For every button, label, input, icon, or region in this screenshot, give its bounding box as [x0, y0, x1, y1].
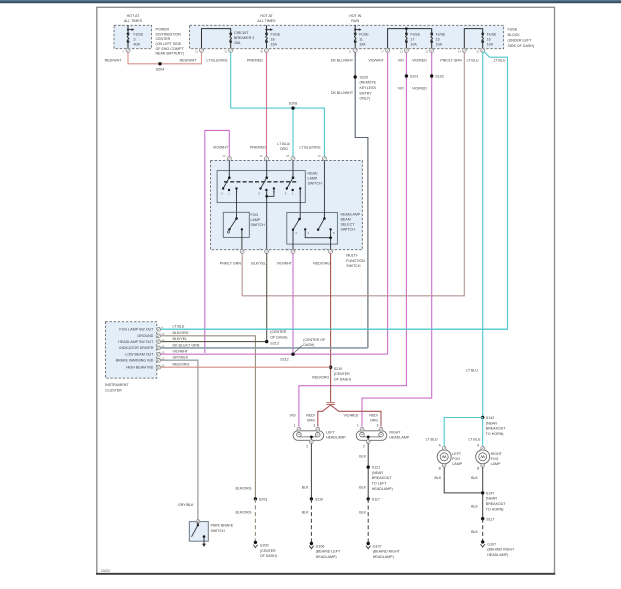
svg-text:RUN: RUN [351, 19, 359, 23]
svg-text:PNK/RED: PNK/RED [250, 145, 266, 149]
svg-text:BLK/ORG: BLK/ORG [236, 510, 252, 514]
svg-text:ENTRY: ENTRY [360, 91, 373, 95]
svg-text:ALL TIMES: ALL TIMES [124, 19, 143, 23]
svg-text:INSTRUMENT: INSTRUMENT [105, 383, 129, 387]
svg-text:VIO: VIO [398, 86, 404, 90]
svg-text:3: 3 [313, 423, 315, 427]
svg-text:(NEAR: (NEAR [486, 497, 498, 501]
svg-text:FUSE: FUSE [410, 32, 420, 36]
svg-text:HIGH BEAM IND: HIGH BEAM IND [126, 366, 154, 370]
svg-text:FUSE: FUSE [134, 32, 144, 36]
svg-text:S212: S212 [280, 358, 288, 362]
svg-text:OF DASH): OF DASH) [260, 554, 277, 558]
wire BLK left headlamp ground to G106 [302, 444, 341, 560]
svg-text:(NEAR: (NEAR [372, 471, 384, 475]
svg-text:VIO/WHT: VIO/WHT [173, 350, 189, 354]
svg-text:PNK/LT GRN: PNK/LT GRN [440, 58, 462, 62]
svg-text:PARK BRAKE: PARK BRAKE [211, 524, 234, 528]
fuse block box [190, 14, 534, 49]
svg-text:TO HORN): TO HORN) [486, 507, 504, 511]
svg-text:CIRCUIT: CIRCUIT [234, 31, 249, 35]
svg-text:VIO/WHT: VIO/WHT [368, 58, 384, 62]
svg-text:S210: S210 [334, 367, 342, 371]
svg-text:HEADLAMP): HEADLAMP) [372, 487, 393, 491]
svg-text:17: 17 [324, 247, 328, 251]
svg-text:POWER: POWER [156, 27, 170, 31]
svg-text:LEFT: LEFT [326, 430, 336, 434]
svg-text:SELECT: SELECT [341, 222, 356, 226]
wire DK BLU/LT GRN indicator row [161, 347, 368, 349]
gang3 output to beam select [299, 189, 301, 220]
wire RED/WHT from fuse3 to breaker, splice S204 [105, 52, 202, 71]
headlamp beam select switch [287, 160, 361, 253]
svg-text:FOG: FOG [251, 213, 259, 217]
svg-text:BREAKER 3: BREAKER 3 [234, 36, 254, 40]
wire LT BLU fog lamp sw out row [161, 328, 508, 330]
right fog lamp [476, 444, 503, 471]
svg-text:1: 1 [294, 423, 296, 427]
svg-text:B: B [439, 467, 441, 471]
svg-text:RIGHT: RIGHT [389, 430, 401, 434]
svg-text:BREAKOUT: BREAKOUT [486, 502, 507, 506]
fuse block output pins [195, 48, 485, 53]
fuse 16 jumper [464, 29, 482, 49]
svg-text:(REMOTE: (REMOTE [360, 81, 377, 85]
svg-text:(NEAR: (NEAR [486, 421, 498, 425]
svg-text:20: 20 [260, 154, 264, 158]
svg-text:2: 2 [363, 445, 365, 449]
svg-text:BLK: BLK [359, 486, 366, 490]
svg-text:VIO/WHT: VIO/WHT [277, 261, 293, 265]
svg-text:FUNCTION: FUNCTION [346, 259, 365, 263]
fuse 11 [354, 25, 370, 48]
fuse 18 [265, 25, 281, 48]
svg-text:(CENTER: (CENTER [270, 330, 286, 334]
svg-text:3: 3 [134, 37, 136, 41]
wire BLK/ORG ground row to G200 [161, 336, 277, 558]
svg-text:SWITCH: SWITCH [341, 227, 356, 231]
svg-text:TO LEFT: TO LEFT [372, 482, 388, 486]
svg-text:LT BLU: LT BLU [173, 325, 185, 329]
pin 2 of PDC [123, 48, 131, 53]
wire GRY/BLK brake warning row to park brake switch [161, 360, 198, 519]
svg-text:10: 10 [224, 50, 228, 54]
svg-text:S117: S117 [372, 498, 380, 502]
svg-text:VIO: VIO [398, 58, 404, 62]
wire BLK right headlamp ground, splices S121 S117, G107 [359, 444, 400, 560]
wire DK BLU/WHT fuse11 to indicator row, splice S220 [331, 52, 377, 348]
svg-text:BRAKE WARNING IND: BRAKE WARNING IND [116, 359, 154, 363]
svg-text:HEAD: HEAD [308, 172, 318, 176]
svg-text:ORG: ORG [370, 418, 378, 422]
svg-text:FUSE: FUSE [271, 32, 281, 36]
svg-text:NEAR BATTERY): NEAR BATTERY) [156, 52, 184, 56]
svg-text:BLK/YEL: BLK/YEL [173, 337, 188, 341]
svg-text:CLUSTER: CLUSTER [105, 388, 122, 392]
switch top pins 13 20 18 19 [222, 154, 326, 161]
svg-text:FUSE: FUSE [436, 32, 446, 36]
svg-text:HEADLAMP): HEADLAMP) [316, 555, 337, 559]
fuse 17 [405, 32, 421, 48]
fuse 15 [430, 32, 446, 48]
fog lamp switch [223, 212, 265, 253]
gang2 output bracket to pin 9 [265, 189, 273, 254]
wire BLK/YEL switch pin9 to splice S213 [251, 253, 266, 341]
svg-text:S147: S147 [486, 491, 494, 495]
svg-text:2: 2 [306, 445, 308, 449]
svg-text:OF DASH): OF DASH) [270, 335, 287, 339]
svg-text:BLK: BLK [471, 505, 478, 509]
fuse 17 and fuse 15 jumper [388, 27, 432, 48]
svg-text:11: 11 [349, 50, 352, 54]
svg-text:BLK/YEL: BLK/YEL [251, 261, 266, 265]
svg-text:17: 17 [410, 37, 414, 41]
headlamp switch gang 2 [258, 160, 275, 195]
svg-text:(BEHIND LEFT: (BEHIND LEFT [316, 550, 341, 554]
svg-text:TO HORN): TO HORN) [486, 432, 504, 436]
svg-text:14: 14 [235, 247, 239, 251]
head lamp switch [217, 171, 322, 203]
svg-text:FUSE: FUSE [359, 32, 369, 36]
svg-text:LT BLU: LT BLU [494, 58, 506, 62]
left fog lamp [437, 444, 462, 471]
svg-text:VIO/RED: VIO/RED [412, 86, 427, 90]
svg-text:KEYLESS: KEYLESS [360, 86, 377, 90]
svg-text:BREAKOUT: BREAKOUT [486, 427, 507, 431]
svg-text:(CENTER: (CENTER [334, 372, 350, 376]
wire LT BLU/ORG breaker to switch, splice S208 [206, 52, 324, 156]
left headlamp [293, 423, 346, 448]
svg-text:20: 20 [476, 50, 480, 54]
svg-text:HOT IN: HOT IN [349, 14, 362, 18]
svg-text:RED/WHT: RED/WHT [180, 58, 198, 62]
svg-text:(UNDER LEFT: (UNDER LEFT [508, 39, 533, 43]
svg-text:11: 11 [359, 37, 363, 41]
svg-text:LAMP: LAMP [251, 218, 261, 222]
svg-text:BLK: BLK [359, 510, 366, 514]
svg-text:PNK/RED: PNK/RED [247, 58, 263, 62]
svg-text:S213: S213 [270, 342, 278, 346]
svg-text:ORG: ORG [280, 147, 288, 151]
fuse 16 [481, 32, 497, 48]
svg-text:VIO/WHT: VIO/WHT [213, 145, 229, 149]
svg-text:HEADLAMP: HEADLAMP [389, 436, 409, 440]
wire LT BLU fuse16 branch to cluster fog row [161, 51, 508, 329]
splice S142 and LT BLU feeds to fog lamps [426, 416, 507, 446]
svg-text:S102: S102 [435, 75, 443, 79]
svg-text:BLK/ORG: BLK/ORG [236, 487, 252, 491]
svg-text:(BEHIND RIGHT: (BEHIND RIGHT [487, 548, 515, 552]
svg-text:19: 19 [458, 50, 462, 54]
svg-text:18: 18 [286, 154, 290, 158]
svg-text:INDICATOR DRIVER: INDICATOR DRIVER [119, 346, 153, 350]
svg-text:OF ENG COMP'T: OF ENG COMP'T [156, 47, 185, 51]
svg-text:BLK: BLK [302, 510, 309, 514]
svg-text:BLK: BLK [471, 530, 478, 534]
wire VIO/WHT low beam row, splice S212 [161, 338, 388, 362]
switch bottom pins 14 9 16 17 [235, 247, 332, 253]
svg-text:BLK: BLK [359, 454, 366, 458]
gang1 output to fog switch [236, 189, 238, 219]
svg-text:G107: G107 [373, 544, 382, 548]
svg-text:ORG: ORG [307, 418, 315, 422]
svg-text:40A: 40A [134, 42, 141, 46]
svg-text:BLK: BLK [302, 486, 309, 490]
svg-text:LEFT: LEFT [452, 452, 462, 456]
svg-text:10A: 10A [410, 42, 417, 46]
svg-text:HEADLAMP SW OUT: HEADLAMP SW OUT [118, 340, 154, 344]
multi-function switch box [211, 160, 366, 268]
svg-text:FOG: FOG [452, 457, 460, 461]
svg-text:10A: 10A [487, 42, 494, 46]
svg-text:HEADLAMP: HEADLAMP [326, 436, 346, 440]
wire VIO/WHT fuse pin17 to low-beam row [368, 52, 387, 354]
svg-text:FUSE: FUSE [508, 28, 518, 32]
svg-text:DASH): DASH) [303, 343, 314, 347]
svg-text:OF DASH): OF DASH) [334, 377, 351, 381]
svg-text:25A: 25A [234, 41, 241, 45]
svg-text:RED/: RED/ [306, 414, 315, 418]
svg-text:B: B [477, 467, 479, 471]
svg-text:RED/: RED/ [369, 414, 378, 418]
svg-text:SWITCH: SWITCH [308, 182, 323, 186]
svg-text:S110: S110 [315, 498, 323, 502]
svg-text:S208: S208 [289, 102, 297, 106]
wire VIO/RED fuse15 to right headlamp, splice S102 [344, 52, 444, 426]
svg-text:FUSE: FUSE [487, 32, 497, 36]
svg-text:G200: G200 [260, 544, 269, 548]
wire PNK/RED fuse18 to switch pin 20 [247, 52, 266, 156]
svg-text:ALL TIMES: ALL TIMES [257, 19, 276, 23]
svg-text:(CENTER: (CENTER [260, 549, 276, 553]
svg-text:G106: G106 [316, 544, 325, 548]
headlamp switch gang 1 [221, 160, 238, 195]
svg-text:LT BLU: LT BLU [467, 58, 479, 62]
svg-text:DISTRIBUTION: DISTRIBUTION [156, 32, 182, 36]
svg-text:FOG: FOG [491, 457, 499, 461]
svg-text:BREAKOUT: BREAKOUT [372, 476, 393, 480]
power distribution center box [114, 14, 185, 55]
svg-text:G107: G107 [487, 542, 496, 546]
svg-text:16: 16 [487, 37, 491, 41]
svg-text:FOG LAMP SW OUT: FOG LAMP SW OUT [119, 328, 154, 332]
svg-text:15: 15 [436, 37, 440, 41]
svg-text:10A: 10A [436, 42, 443, 46]
svg-text:17: 17 [381, 50, 385, 54]
svg-text:BLK: BLK [435, 476, 442, 480]
svg-text:BEAM: BEAM [341, 217, 351, 221]
svg-text:S101: S101 [410, 75, 418, 79]
svg-text:ONLY): ONLY) [360, 97, 371, 101]
svg-text:GRY/BLK: GRY/BLK [173, 356, 189, 360]
frame bottom line [96, 573, 555, 575]
instrument cluster [105, 322, 200, 393]
wire VIO/WHT jumper to switch pin 13 [205, 130, 230, 353]
park brake switch [189, 520, 234, 547]
fuse 3 symbol [127, 25, 144, 48]
svg-text:SWITCH: SWITCH [211, 529, 226, 533]
svg-text:CENTER: CENTER [156, 37, 171, 41]
svg-text:12: 12 [400, 50, 404, 54]
wire VIO fuse17 to left headlamp, splice S101 [289, 52, 418, 426]
svg-text:SIDE OF DASH): SIDE OF DASH) [508, 44, 535, 48]
svg-text:S121: S121 [372, 466, 380, 470]
svg-text:19: 19 [317, 154, 321, 158]
svg-text:LT BLU: LT BLU [426, 437, 438, 441]
svg-text:HEADLAMP: HEADLAMP [341, 212, 361, 216]
wire RED/ORG high beam row to S210 [161, 366, 331, 368]
svg-text:3: 3 [377, 423, 379, 427]
svg-text:LAMP: LAMP [452, 462, 462, 466]
svg-text:13653: 13653 [101, 569, 111, 573]
svg-text:VIO/RED: VIO/RED [412, 58, 427, 62]
svg-text:MULTI-: MULTI- [346, 254, 359, 258]
svg-text:16: 16 [286, 247, 290, 251]
svg-text:(BEHIND RIGHT: (BEHIND RIGHT [373, 550, 401, 554]
svg-text:S220: S220 [360, 75, 368, 79]
wire BLK fog lamp grounds, splices S147 S117, G107 [435, 467, 516, 557]
RED/ORG splice Y to headlamp pins 3 [306, 403, 381, 427]
wire LT BLU fuse16 down to fog lamps splice S142 [466, 52, 483, 417]
svg-text:HOT AT: HOT AT [127, 14, 140, 18]
svg-text:10A: 10A [359, 42, 366, 46]
svg-text:1: 1 [357, 423, 359, 427]
svg-text:GROUND: GROUND [137, 334, 153, 338]
svg-text:LOW BEAM OUT: LOW BEAM OUT [125, 353, 154, 357]
svg-text:LT BLU: LT BLU [466, 369, 478, 373]
svg-text:LAMP: LAMP [308, 177, 318, 181]
svg-text:BLK: BLK [471, 476, 478, 480]
svg-text:S117: S117 [486, 517, 494, 521]
svg-text:(CENTER OF: (CENTER OF [303, 338, 326, 342]
svg-text:LT BLU: LT BLU [468, 437, 480, 441]
svg-text:GRY/BLK: GRY/BLK [178, 503, 194, 507]
svg-text:SWITCH: SWITCH [346, 264, 361, 268]
wire PNK/LT GRN fuse pin19 to fog switch pin14 [220, 52, 465, 295]
svg-text:18: 18 [271, 37, 275, 41]
svg-text:15: 15 [425, 50, 429, 54]
svg-text:RED/ORG: RED/ORG [312, 376, 329, 380]
svg-text:RED/WHT: RED/WHT [105, 58, 123, 62]
svg-text:DK BLU/WHT: DK BLU/WHT [331, 91, 354, 95]
svg-text:LT BLU/: LT BLU/ [277, 142, 290, 146]
top window edge bar [0, 0, 621, 1]
svg-text:RED/ORG: RED/ORG [313, 261, 330, 265]
svg-text:RED/ORG: RED/ORG [173, 363, 190, 367]
right headlamp [356, 423, 410, 448]
svg-text:S203: S203 [259, 498, 267, 502]
svg-text:SWITCH: SWITCH [251, 223, 266, 227]
svg-text:LT BLU/ORG: LT BLU/ORG [299, 145, 320, 149]
svg-text:LAMP: LAMP [491, 462, 501, 466]
svg-text:13: 13 [222, 154, 226, 158]
headlamp switch gang 3 [285, 160, 302, 195]
svg-text:30: 30 [260, 50, 264, 54]
svg-text:LT BLU/ORG: LT BLU/ORG [206, 58, 227, 62]
svg-text:VIO/RED: VIO/RED [344, 414, 359, 418]
svg-text:VIO: VIO [289, 414, 295, 418]
circuit breaker 3 [202, 29, 255, 49]
svg-text:S142: S142 [486, 416, 494, 420]
svg-text:HEADLAMP): HEADLAMP) [487, 553, 508, 557]
diagram border frame [97, 7, 555, 573]
svg-text:DK BLU/WHT: DK BLU/WHT [331, 58, 354, 62]
svg-text:BLK/ORG: BLK/ORG [173, 331, 189, 335]
wire RED/ORG switch pin17 to headlamps, splice S210 [312, 253, 351, 402]
svg-text:15A: 15A [271, 42, 278, 46]
svg-text:(ON LEFT SIDE: (ON LEFT SIDE [156, 42, 182, 46]
svg-text:HEADLAMP): HEADLAMP) [373, 555, 394, 559]
svg-text:DK BLU/LT GRN: DK BLU/LT GRN [173, 343, 200, 347]
wire VIO/WHT switch pin16 to splice S212 [277, 253, 293, 354]
svg-text:BLOCK: BLOCK [508, 33, 521, 37]
svg-text:S204: S204 [156, 68, 164, 72]
svg-text:RIGHT: RIGHT [491, 452, 503, 456]
svg-text:PNK/LT GRN: PNK/LT GRN [220, 261, 242, 265]
svg-text:12: 12 [195, 50, 199, 54]
svg-text:HOT AT: HOT AT [260, 14, 273, 18]
wire BLK/YEL headlamp sw out row, splice S213 [161, 330, 287, 345]
